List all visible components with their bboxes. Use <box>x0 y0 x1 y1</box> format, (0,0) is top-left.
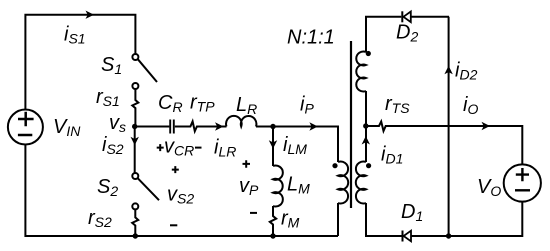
wire top secondary to D2 <box>366 17 449 52</box>
current arrow iLM <box>269 140 277 149</box>
svg-text:iD2: iD2 <box>455 60 478 83</box>
current arrow iO <box>482 122 491 130</box>
svg-text:vS2: vS2 <box>167 184 194 207</box>
transformer primary winding <box>338 161 348 203</box>
svg-text:S1: S1 <box>101 54 122 77</box>
diode D2 <box>403 12 410 23</box>
svg-text:D1: D1 <box>401 201 423 224</box>
wire secondary top to rTS node <box>365 91 367 126</box>
switch S2 <box>132 173 138 179</box>
wire CR to rTP <box>175 126 187 128</box>
wire D1 to VO bottom rail <box>411 202 522 236</box>
svg-text:LM: LM <box>287 174 310 197</box>
wire D2 down across iO wire to bottom rail <box>448 17 450 236</box>
svg-text:vP: vP <box>239 175 259 198</box>
primary polarity dot <box>332 163 337 168</box>
secondary top polarity dot <box>366 51 371 56</box>
svg-text:rS1: rS1 <box>96 86 120 109</box>
switch S1 <box>132 54 138 60</box>
wire LM branch top <box>272 127 274 167</box>
svg-text:iS2: iS2 <box>102 134 124 157</box>
current arrow iS1 <box>86 11 95 19</box>
svg-text:iO: iO <box>463 94 478 117</box>
svg-text:CR: CR <box>158 92 183 115</box>
label vS2 minus <box>170 224 177 226</box>
node junction dot rM bottom <box>270 233 275 238</box>
svg-text:S2: S2 <box>97 176 118 199</box>
label vP plus <box>243 160 251 168</box>
inductor LR <box>226 116 256 127</box>
svg-text:N:1:1: N:1:1 <box>287 27 335 49</box>
label +vCR- minus <box>195 147 202 149</box>
transformer secondary bottom winding <box>356 161 366 203</box>
voltage source VO <box>504 164 541 201</box>
node junction dot D2-branch at rail <box>446 233 451 238</box>
diode D1 <box>404 231 411 242</box>
resistor rS2 <box>132 209 138 236</box>
svg-text:rM: rM <box>281 208 300 231</box>
wire vs node to S2 <box>134 127 136 174</box>
wire secondary bottom branch <box>365 126 367 162</box>
label vP minus <box>250 212 257 214</box>
node rTS junction dot <box>363 123 368 128</box>
transformer core <box>350 41 352 208</box>
svg-text:vCR: vCR <box>164 136 194 159</box>
svg-text:D2: D2 <box>396 22 418 45</box>
resistor rS1 <box>132 89 138 127</box>
wire vs node to capacitor CR <box>135 126 170 128</box>
wire VIN bottom to bottom rail <box>25 145 338 237</box>
current arrow iS2 <box>131 137 139 146</box>
label +vCR- plus <box>157 144 164 151</box>
current arrow iP <box>309 122 318 130</box>
svg-text:iS1: iS1 <box>64 24 86 47</box>
wire top rail from VIN+ to S1 branch <box>25 15 135 111</box>
resistor rTP <box>187 121 202 131</box>
wire node to rTS <box>366 125 373 127</box>
svg-text:iLM: iLM <box>283 134 307 157</box>
svg-text:rTS: rTS <box>385 93 410 116</box>
resistor rTS <box>373 122 388 132</box>
svg-text:iD1: iD1 <box>381 144 403 167</box>
node vs junction dot <box>132 124 137 129</box>
svg-text:VO: VO <box>477 176 501 199</box>
wire primary bottom to rail <box>337 203 339 236</box>
svg-text:vs: vs <box>109 112 126 135</box>
VIN minus sign <box>18 134 32 137</box>
VO plus sign <box>516 168 529 181</box>
secondary bottom polarity dot <box>366 163 371 168</box>
svg-text:rTP: rTP <box>190 92 215 115</box>
node junction dot at LM branch <box>270 124 275 129</box>
inductor LM <box>273 166 283 207</box>
resistor rM <box>270 206 276 236</box>
transformer secondary top winding <box>356 52 366 92</box>
label vS2 plus <box>172 166 179 173</box>
wire secondary bottom to rail <box>366 203 402 236</box>
svg-text:iLR: iLR <box>214 137 236 160</box>
voltage source VIN <box>8 110 43 145</box>
current arrow iLR <box>215 122 224 130</box>
current arrow iD1 <box>362 136 370 145</box>
node junction dot rS2 bottom <box>133 233 138 238</box>
wire rTP to LR <box>201 126 227 128</box>
svg-text:iP: iP <box>300 94 314 117</box>
svg-text:VIN: VIN <box>53 116 81 139</box>
wire rTS to VO top <box>388 126 523 164</box>
VO minus sign <box>515 189 530 191</box>
capacitor CR <box>170 120 174 134</box>
current arrow iD2 <box>444 66 452 75</box>
wire LR to transformer primary <box>256 127 338 163</box>
VIN plus sign <box>18 112 34 126</box>
svg-text:rS2: rS2 <box>88 207 112 230</box>
svg-text:LR: LR <box>236 94 257 117</box>
